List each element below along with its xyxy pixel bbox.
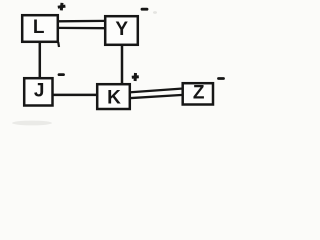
node Z label — [193, 83, 205, 104]
svg-text:L: L — [33, 17, 45, 38]
polarity - near Y — [142, 8, 147, 11]
node J label — [34, 81, 45, 102]
node Y box — [105, 16, 138, 45]
wire L-J vertical — [39, 42, 42, 78]
polarity + on K-Z link — [132, 73, 139, 81]
node Y label — [115, 19, 128, 40]
node Z box — [183, 83, 213, 104]
polarity - near Z — [219, 77, 224, 80]
smudge bottom-left — [12, 121, 52, 126]
node J box — [24, 78, 52, 105]
svg-text:Z: Z — [193, 83, 205, 104]
wire K-Z double line, lower — [129, 95, 183, 98]
wire Y-K vertical — [121, 45, 124, 84]
node K label — [107, 87, 121, 108]
node K box — [97, 84, 130, 109]
wire L-Y double line, upper — [57, 20, 106, 23]
polarity - near J — [59, 73, 64, 76]
svg-text:Y: Y — [115, 19, 128, 40]
svg-text:K: K — [107, 87, 121, 108]
smudge dot right of Y — [153, 11, 157, 14]
wire K-Z double line, upper — [129, 89, 183, 93]
node L label — [33, 17, 45, 38]
polarity + on L-Y link — [58, 3, 66, 10]
wire J-K horizontal — [52, 94, 98, 97]
svg-text:J: J — [34, 81, 45, 102]
wire L-Y double line, lower — [57, 27, 106, 30]
node L box — [22, 15, 59, 47]
